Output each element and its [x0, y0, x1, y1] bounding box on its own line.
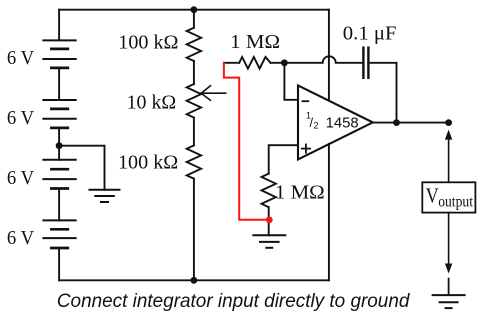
svg-text:6 V: 6 V: [7, 227, 35, 249]
label V_output: [426, 184, 474, 211]
V_output box: [422, 182, 475, 212]
svg-text:10 kΩ: 10 kΩ: [127, 93, 177, 114]
wire feedback with hop over supply line: [284, 56, 363, 62]
wire power line right (V+ / V- rail through op-amp): [328, 10, 330, 281]
wire divider top stub: [193, 10, 195, 28]
battery B3 (6 V): [43, 160, 75, 189]
wire/arrow up toward output node: [448, 133, 450, 182]
svg-text:V: V: [426, 184, 439, 208]
battery B4 (6 V): [43, 220, 75, 248]
svg-text:1 MΩ: 1 MΩ: [275, 182, 325, 203]
svg-text:2: 2: [314, 121, 319, 131]
op-amp minus sign: [302, 100, 310, 102]
op-amp U1 triangle: [298, 85, 373, 159]
battery B1 (6 V): [43, 40, 75, 68]
svg-text:6 V: 6 V: [7, 167, 35, 189]
capacitor C1 0.1 uF: [363, 48, 368, 78]
wire V_output box to down arrow: [448, 213, 450, 266]
svg-text:output: output: [438, 193, 473, 210]
ground (battery midpoint): [90, 190, 120, 202]
label op-amp 1/2 1458: [306, 111, 359, 132]
wire battery column top: [58, 10, 60, 41]
svg-text:100 kΩ: 100 kΩ: [118, 33, 178, 54]
wire between B2 and B3: [58, 128, 60, 160]
wire pot to R3: [193, 118, 195, 146]
wire battery column bottom: [58, 248, 60, 280]
junction dot output terminal: [445, 119, 452, 126]
wire capacitor to output node: [368, 63, 396, 123]
junction dot bottom divider: [191, 277, 198, 284]
svg-text:100 kΩ: 100 kΩ: [118, 153, 178, 174]
svg-text:6 V: 6 V: [7, 47, 35, 69]
battery B2 (6 V): [43, 100, 75, 128]
svg-text:Connect integrator input direc: Connect integrator input directly to gro…: [57, 290, 411, 312]
svg-text:6 V: 6 V: [7, 107, 35, 129]
junction dot feedback/output: [393, 119, 400, 126]
junction dot battery midpoint: [56, 142, 63, 149]
ground (non-inverting network): [253, 235, 285, 248]
resistor R4 1 MOhm (integrator input): [239, 57, 270, 69]
wire battery midpoint to ground: [59, 146, 104, 190]
svg-text:1458: 1458: [326, 114, 359, 131]
junction dot integrator input node: [281, 59, 288, 66]
op-amp plus sign: [301, 144, 311, 154]
junction dot top divider: [191, 6, 198, 13]
resistor R1 100 kOhm: [187, 28, 201, 61]
red junction dot: [266, 216, 273, 223]
arrowhead up (output probe): [445, 130, 452, 140]
wire R1 to pot: [193, 61, 195, 84]
wire between B1 and B2: [58, 68, 60, 100]
wire ground stub below arrow: [448, 279, 450, 296]
wire non-inverting input: [269, 145, 298, 173]
wire op-amp output: [373, 122, 449, 124]
wire R3 to bottom rail: [193, 179, 195, 281]
wire input resistor left lead: [224, 62, 239, 64]
wire between B3 and B4: [58, 189, 60, 221]
red wire (integrator input strapped to ground): [224, 63, 269, 220]
svg-text:1 MΩ: 1 MΩ: [230, 32, 280, 53]
wire inverting input: [284, 63, 298, 100]
wire R5 to ground: [268, 207, 270, 235]
resistor R5 1 MOhm (to ground): [262, 174, 276, 208]
resistor R3 100 kOhm: [187, 145, 201, 178]
potentiometer R2 10 kOhm: [187, 84, 201, 118]
wire top rail: [59, 9, 329, 11]
svg-text:0.1 μF: 0.1 μF: [343, 23, 397, 44]
wire bottom rail: [59, 279, 329, 281]
arrowhead down (to ground probe): [445, 264, 452, 274]
wire input resistor right lead to node: [271, 62, 285, 64]
ground (output reference): [433, 295, 465, 308]
potentiometer wiper arrow: [201, 86, 226, 101]
